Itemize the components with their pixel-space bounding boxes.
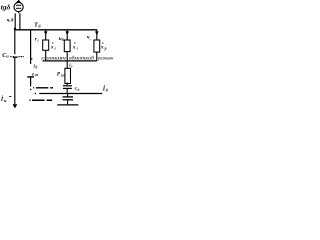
- svg-text:и: и: [4, 98, 7, 103]
- svg-text:х: х: [50, 45, 54, 51]
- svg-text:ч.δ: ч.δ: [7, 18, 14, 24]
- svg-text:б: б: [78, 88, 80, 92]
- svg-text:z: z: [31, 72, 34, 77]
- svg-text:обмоткаб: обмоткаб: [69, 55, 95, 62]
- svg-text:размыкн: размыкн: [97, 56, 113, 62]
- svg-text:х: х: [100, 45, 104, 51]
- svg-text:из: из: [35, 73, 39, 77]
- svg-text:р: р: [104, 47, 107, 51]
- svg-text:главнаяч: главнаяч: [41, 56, 66, 62]
- svg-text:tgδ: tgδ: [1, 2, 11, 11]
- svg-text:,: ,: [89, 36, 91, 40]
- svg-text:х: х: [72, 45, 76, 51]
- svg-text:из: из: [61, 74, 65, 78]
